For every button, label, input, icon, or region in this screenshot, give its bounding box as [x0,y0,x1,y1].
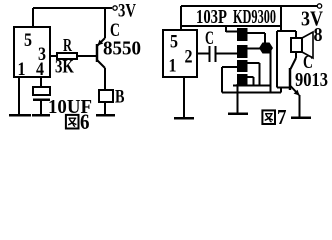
capacitor C right plate [215,46,217,62]
wire: collector bus y85 [233,85,271,87]
label fig6 (tu glyph) [66,115,79,129]
pad 3 of KD9300 board [237,60,248,72]
capacitor C left plate [209,46,211,62]
terminal: fig7 3V circle [317,4,321,8]
wire: fig6 IC top lead [32,8,34,27]
svg-text:9013: 9013 [295,69,328,91]
wire: Q1 collector down to B box [104,68,106,90]
wire: pad1 route right [247,33,265,43]
ground: fig7 Q2 emitter [291,116,311,119]
connector B box [99,90,113,102]
svg-text:1: 1 [169,56,177,77]
ground: fig6 cap [32,114,50,117]
wire: fig7 +3V top rail [181,5,317,7]
IC U1 (fig6 4-pin music IC) [14,27,50,77]
svg-text:7: 7 [277,105,287,129]
svg-text:8550: 8550 [103,38,141,60]
wire: fig6 +3V top rail [33,7,112,9]
svg-text:4: 4 [36,59,44,80]
wire: right vertical to base [276,31,278,88]
ground: fig7 pads [228,112,248,115]
wire: speaker to Q2 collector [295,52,297,58]
transistor Q2 9013 [290,58,300,96]
svg-text:R: R [63,35,73,55]
wire: pin2 stub [197,53,209,55]
wire: pin4 lead down [40,77,42,87]
svg-text:6: 6 [80,109,90,131]
pad 2 of KD9300 board [237,45,248,58]
svg-text:2: 2 [185,47,193,68]
wire: speaker feed [277,31,296,38]
wire: cap to ground [40,100,42,115]
svg-text:103P: 103P [196,6,227,28]
svg-text:3K: 3K [55,57,74,78]
capacitor 10UF top plate [33,87,50,95]
speaker LS driver box [291,38,302,52]
IC U2 (fig7 toy IC) [163,30,197,77]
pad 1 of KD9300 board [237,28,248,41]
wire: Q2 emitter down [299,95,301,117]
wire: title box bottom line [181,25,281,27]
ground: fig6 pin1 [9,114,31,117]
svg-text:3V: 3V [118,1,136,22]
wire: pin1 lead down [18,77,20,115]
wire: title box right edge [280,6,282,31]
junction blob node [259,43,273,54]
wire: left vertical to bottom line [221,67,223,93]
pad 4 of KD9300 board [237,74,248,85]
svg-text:KD9300: KD9300 [233,6,276,28]
wire: pin3 stub to resistor [50,55,57,57]
svg-text:5: 5 [170,32,178,53]
wire: resistor to Q1 base [77,55,96,57]
wire: pad4 route [247,77,254,85]
wire: B box to ground [104,102,106,115]
wire: rail drop to pad1 [226,27,237,32]
wire: pin1 lead down [183,77,185,118]
svg-text:5: 5 [24,30,32,51]
wire: pads column to ground [237,84,239,113]
wire: junction down to bottom line [270,50,272,93]
wire: bottom return line [222,88,281,93]
ground: fig6 B [96,114,115,117]
wire: base feed line [277,87,289,89]
svg-text:8: 8 [314,24,323,46]
svg-text:1: 1 [18,59,26,80]
svg-text:B: B [115,87,125,108]
wire: pad2 route to junction [247,48,260,50]
wire: pad3 left stub [222,66,237,68]
wire: pad3 route [247,63,260,85]
speaker LS cone [302,32,313,58]
wire: fig7 IC top lead [180,6,182,30]
transistor Q1 8550 [97,8,105,68]
terminal: fig6 3V circle [113,6,117,10]
resistor R 3K body [57,53,77,59]
label fig7 (tu glyph) [262,110,275,124]
capacitor 10UF bottom plate [33,98,50,101]
svg-text:C: C [205,28,214,49]
wire: cap to pad2 [216,53,237,55]
ground: fig7 pin1 [174,117,194,120]
